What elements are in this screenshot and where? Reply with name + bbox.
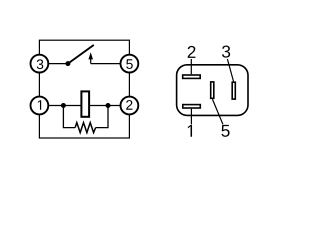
pin 2 slot (183, 75, 201, 78)
label pin 2 (188, 46, 196, 58)
terminal 1 (31, 97, 49, 115)
switch arm (movable contact) (68, 45, 93, 63)
coil K1 (81, 91, 89, 116)
junction dot: switch pivot (65, 61, 70, 66)
leader: pin 1 (190, 109, 192, 125)
label pin 3 (222, 45, 230, 57)
leader: pin 5 (212, 99, 223, 124)
wire: arrow to terminal 5 (91, 63, 122, 65)
pin 1 slot (183, 105, 201, 108)
connector body (socket face) (177, 65, 248, 116)
wire: dot A down to resistor (63, 106, 75, 128)
wire: dot B down to resistor (96, 106, 108, 128)
arrow at contact 5 (88, 52, 93, 63)
junction dot A (left of coil) (61, 103, 66, 108)
terminal 3 (31, 55, 49, 73)
junction dot B (right of coil) (106, 103, 111, 108)
pin 3 slot (232, 82, 235, 99)
wire: terminal 3 to switch pivot (47, 63, 68, 65)
terminal 2 (120, 97, 138, 115)
relay outline box (39, 40, 129, 138)
resistor R (zigzag) (75, 123, 96, 133)
label pin 1 (188, 125, 192, 137)
wire: terminal 1 to terminal 2 (through coil) (47, 105, 122, 107)
leader: pin 3 (227, 59, 233, 81)
label pin 5 (221, 125, 229, 137)
terminal 5 (120, 55, 138, 73)
leader: pin 2 (190, 59, 192, 74)
pin 5 slot (211, 82, 214, 98)
